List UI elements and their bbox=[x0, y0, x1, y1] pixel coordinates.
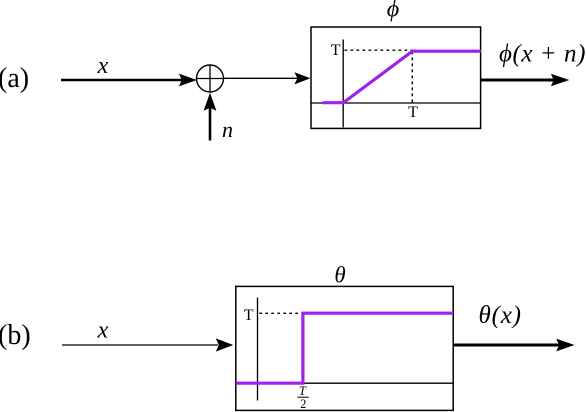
curve phi saturating ramp bbox=[323, 51, 481, 102]
svg-text:x: x bbox=[97, 53, 109, 79]
svg-text:x: x bbox=[97, 318, 109, 344]
adder plus horizontal bbox=[197, 78, 224, 80]
arrowhead into block (a) bbox=[294, 72, 310, 84]
arrowhead into block (b) bbox=[216, 338, 233, 351]
x-axis (a) bbox=[311, 102, 481, 104]
block phi rectangle bbox=[311, 27, 481, 128]
svg-text:T: T bbox=[408, 104, 418, 121]
svg-text:θ(x): θ(x) bbox=[479, 302, 522, 329]
wire output (b) bbox=[453, 344, 560, 347]
curve theta step bbox=[236, 313, 453, 383]
arrowhead n into adder bbox=[204, 93, 217, 111]
svg-text:n: n bbox=[222, 117, 233, 142]
dotted drop line T (a) bbox=[411, 52, 413, 103]
arrowhead output (b) bbox=[556, 339, 574, 352]
wire x input (b) bbox=[62, 344, 218, 346]
svg-text:ϕ: ϕ bbox=[387, 0, 399, 23]
wire adder to block bbox=[224, 77, 299, 79]
wire n input bbox=[209, 107, 212, 141]
wire x input (a) bbox=[61, 79, 184, 82]
wire output (a) bbox=[481, 79, 556, 82]
y-axis (a) bbox=[342, 40, 344, 128]
arrowhead output (a) bbox=[551, 74, 570, 87]
svg-text:(a): (a) bbox=[0, 63, 29, 94]
svg-text:θ: θ bbox=[334, 263, 345, 288]
svg-text:T: T bbox=[331, 42, 341, 59]
y-axis (b) bbox=[257, 298, 259, 401]
dotted level line T (b) bbox=[259, 312, 301, 314]
x-axis (b) bbox=[236, 382, 453, 384]
svg-text:ϕ(x + n): ϕ(x + n) bbox=[499, 41, 586, 68]
dotted level line T (a) bbox=[345, 49, 413, 51]
adder U1 circle bbox=[197, 65, 224, 92]
arrowhead into adder bbox=[179, 74, 197, 87]
block theta rectangle bbox=[236, 286, 453, 410]
svg-text:2: 2 bbox=[300, 397, 306, 411]
svg-text:T: T bbox=[244, 307, 254, 324]
svg-text:(b): (b) bbox=[0, 320, 31, 351]
fraction bar bbox=[297, 396, 309, 398]
adder plus vertical bbox=[209, 65, 211, 92]
